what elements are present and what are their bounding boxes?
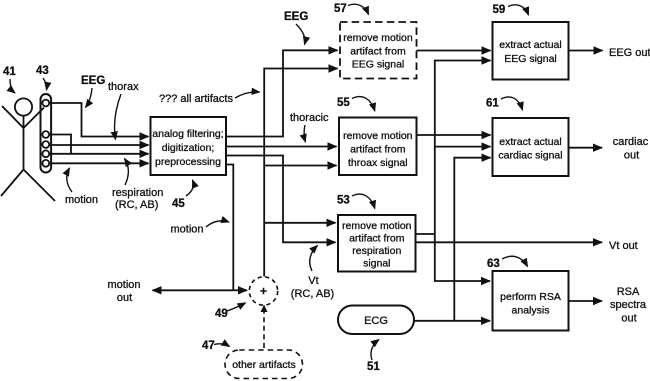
svg-text:55: 55 xyxy=(337,97,350,109)
box 63 perform RSA analysis xyxy=(493,271,569,331)
wire respiration electrode3 to box45 input3 xyxy=(50,153,149,155)
svg-text:43: 43 xyxy=(36,65,49,77)
svg-text:ECG: ECG xyxy=(364,315,388,327)
svg-text:57: 57 xyxy=(334,3,347,15)
svg-text:motion: motion xyxy=(65,194,98,206)
leader arrow 47 xyxy=(214,344,230,347)
leader arrow 45 xyxy=(186,180,193,196)
leader arrow 59 xyxy=(508,5,529,15)
wire box45 thoracic out to box55 input1 xyxy=(226,146,337,148)
svg-text:artifact from: artifact from xyxy=(349,233,405,245)
wire box53 output vertical trunk xyxy=(416,61,491,235)
patient stick figure xyxy=(1,98,55,201)
wire box45 motion out down to junction xyxy=(226,165,233,291)
svg-text:artifact from: artifact from xyxy=(350,46,406,58)
ECG bubble 51 xyxy=(338,306,414,335)
wire box63 to RSA out xyxy=(569,300,603,302)
wire box45 EEG out up to box57 input1 xyxy=(226,50,338,136)
svg-text:artifact from: artifact from xyxy=(350,144,406,156)
wire artifacts vertical from summer to box57 input2 xyxy=(264,69,337,277)
wire box55 to box61 input1 xyxy=(417,134,491,136)
wire motion out arrow left xyxy=(153,289,234,291)
svg-text:analysis: analysis xyxy=(512,305,550,317)
svg-text:EEG signal: EEG signal xyxy=(352,59,405,71)
svg-text:47: 47 xyxy=(202,340,215,352)
leader arrow 51 xyxy=(371,340,379,361)
svg-text:EEG out: EEG out xyxy=(609,47,650,59)
svg-text:59: 59 xyxy=(493,4,506,16)
leader arrow Vt xyxy=(310,246,318,272)
leader arrow 53 xyxy=(352,194,375,208)
box 45 analog filtering xyxy=(151,117,227,175)
svg-text:remove motion: remove motion xyxy=(342,220,412,232)
summer circle 49 xyxy=(249,277,277,305)
leader arrow 43 xyxy=(43,78,47,90)
dashed arrow other artifacts into summer xyxy=(263,310,265,348)
svg-text:other artifacts: other artifacts xyxy=(232,359,296,371)
wire ECG to box63 input2 xyxy=(414,320,490,322)
wire thoracic electrode2 to box45 input2 xyxy=(50,144,149,146)
svg-text:(RC, AB): (RC, AB) xyxy=(115,199,158,211)
electrode strip 43 xyxy=(41,94,52,173)
svg-text:(RC, AB): (RC, AB) xyxy=(291,288,334,300)
electrode 3 xyxy=(42,150,49,157)
svg-text:Vt: Vt xyxy=(308,275,318,287)
svg-text:cardiac: cardiac xyxy=(613,136,649,148)
svg-text:cardiac signal: cardiac signal xyxy=(498,150,562,162)
leader arrow motion left xyxy=(67,168,72,192)
box 61 extract actual cardiac signal xyxy=(493,118,569,176)
svg-text:remove motion: remove motion xyxy=(343,32,413,44)
box 55 remove motion artifact from throax xyxy=(339,118,417,176)
wire artifacts branch to box53 input1 xyxy=(264,222,335,224)
wire box57 to box59 input1 xyxy=(417,50,491,52)
leader arrow motion mid xyxy=(206,221,229,227)
wire box53 Vt out xyxy=(416,241,603,243)
leader arrow respiration xyxy=(125,159,129,186)
svg-text:49: 49 xyxy=(215,308,228,320)
leader arrow thorax xyxy=(115,94,121,140)
wire box45 respiration out down to box53 input2 Vt xyxy=(226,156,336,243)
svg-text:out: out xyxy=(621,313,636,325)
electrode 2 xyxy=(42,141,49,148)
svg-text:EEG: EEG xyxy=(81,75,105,87)
svg-text:analog filtering;: analog filtering; xyxy=(152,128,223,140)
svg-text:extract actual: extract actual xyxy=(499,39,561,51)
other artifacts bubble 47 xyxy=(225,350,303,379)
svg-text:out: out xyxy=(624,150,639,162)
svg-text:perform RSA: perform RSA xyxy=(500,291,561,303)
leader arrow 57 xyxy=(348,4,369,14)
svg-text:respiration: respiration xyxy=(112,187,163,199)
box 53 remove motion artifact from respiration xyxy=(338,215,416,272)
svg-text:digitization;: digitization; xyxy=(162,142,215,154)
svg-text:motion: motion xyxy=(107,279,140,291)
box 59 extract actual EEG signal xyxy=(493,22,569,80)
wire EEG electrode to box45 input1 xyxy=(50,103,149,137)
svg-text:63: 63 xyxy=(487,258,500,270)
svg-text:out: out xyxy=(117,292,132,304)
svg-text:61: 61 xyxy=(486,98,499,110)
svg-text:extract actual: extract actual xyxy=(499,136,561,148)
wire trunk down to box63 input1 xyxy=(435,234,490,281)
svg-text:motion: motion xyxy=(171,224,204,236)
leader arrow EEG left xyxy=(86,88,93,108)
leader arrow 41 xyxy=(10,79,15,93)
wire motion electrode4 to box45 input4 xyxy=(50,162,149,164)
svg-text:51: 51 xyxy=(367,361,380,373)
svg-text:signal: signal xyxy=(363,258,390,270)
wire trunk branch to box61 input2 xyxy=(435,146,491,148)
svg-text:RSA: RSA xyxy=(617,286,640,298)
leader arrow thoracic xyxy=(304,125,305,142)
box 57 remove motion artifact from EEG (dashed) xyxy=(340,22,417,79)
wire artifacts branch to box55 input2 xyxy=(264,165,336,167)
svg-text:??? all artifacts: ??? all artifacts xyxy=(159,93,233,105)
svg-text:preprocessing: preprocessing xyxy=(155,156,221,168)
svg-text:thoracic: thoracic xyxy=(290,112,329,124)
leader arrow 63 xyxy=(502,256,528,266)
svg-text:throax signal: throax signal xyxy=(348,157,408,169)
wire electrode1 jog to respiration line xyxy=(50,135,72,154)
wire motion into summer 49 xyxy=(233,289,247,291)
leader arrow 55 xyxy=(352,97,375,111)
electrode 4 xyxy=(42,160,49,167)
svg-text:45: 45 xyxy=(172,198,185,210)
svg-text:53: 53 xyxy=(337,195,350,207)
svg-text:spectra: spectra xyxy=(610,299,647,311)
svg-text:thorax: thorax xyxy=(108,81,139,93)
svg-text:EEG signal: EEG signal xyxy=(504,53,557,65)
svg-text:remove motion: remove motion xyxy=(343,130,413,142)
svg-text:41: 41 xyxy=(3,66,16,78)
leader arrow 49 xyxy=(227,303,246,311)
svg-text:EEG: EEG xyxy=(284,11,308,23)
wire box61 to cardiac out xyxy=(569,147,603,149)
wire box59 to EEG out xyxy=(569,50,603,52)
electrode (head) xyxy=(42,100,49,107)
svg-text:Vt out: Vt out xyxy=(609,240,638,252)
leader arrow all artifacts xyxy=(235,92,260,98)
electrode 1 xyxy=(42,131,49,138)
svg-text:respiration: respiration xyxy=(352,245,401,257)
leader arrow EEG top xyxy=(296,24,305,45)
leader arrow 61 xyxy=(501,97,523,110)
wire ECG vertical to box61 input3 xyxy=(454,158,490,321)
